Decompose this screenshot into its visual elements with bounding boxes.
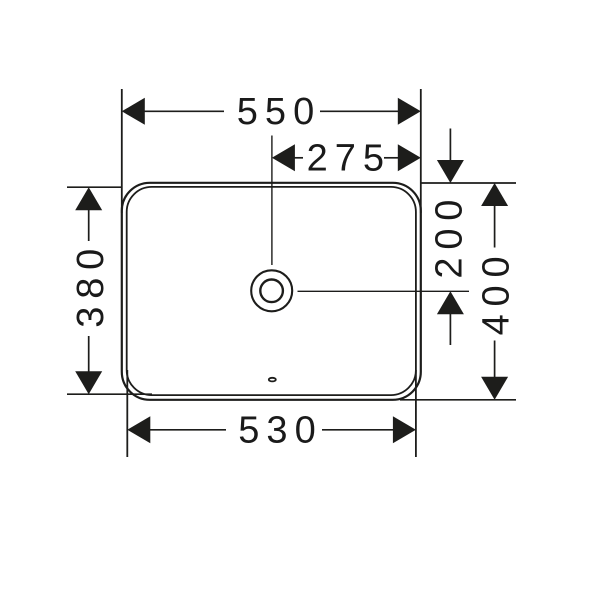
dim 530 left arrow: [127, 416, 150, 443]
dim 200 lower tail line: [449, 314, 451, 346]
dim 200 bottom arrow pointing up: [437, 291, 464, 314]
drain outer circle: [251, 270, 292, 311]
dim 200 upper tail line: [449, 129, 451, 162]
svg-text:200: 200: [428, 192, 470, 279]
dim 550 left extension line: [121, 89, 123, 213]
dim 275 left arrow at centerline: [272, 144, 295, 171]
drain inner circle: [260, 280, 283, 303]
dim 550 line left segment: [144, 110, 224, 112]
basin top edge right extension line: [421, 182, 516, 184]
dim 400 line lower segment: [494, 341, 496, 378]
basin inner rim: [127, 187, 416, 395]
basin outer rim: [122, 183, 421, 400]
dim 530 right extension line: [415, 370, 417, 457]
dim 275 line left stub: [294, 157, 303, 159]
dim 550 right arrow: [398, 98, 421, 125]
overflow hole: [269, 378, 276, 382]
dim 550 left arrow: [122, 98, 145, 125]
dim 400 line upper segment: [494, 205, 496, 247]
dim 400 bottom arrow pointing down: [481, 377, 508, 400]
dim 400 top arrow pointing up: [481, 183, 508, 206]
dim 530 left extension line: [126, 370, 128, 457]
dim 380 top arrow: [75, 187, 102, 210]
dim 380 bottom extension line: [67, 393, 152, 395]
dim 275 line right segment: [384, 157, 399, 159]
svg-text:530: 530: [238, 410, 322, 452]
dim 200 top arrow pointing down: [437, 160, 464, 183]
dim 380 line lower segment: [88, 336, 90, 372]
dim 550 right extension line: [420, 89, 422, 213]
dim 380 bottom arrow: [75, 371, 102, 394]
dim 530 line left segment: [150, 429, 227, 431]
dim 380 line upper segment: [88, 209, 90, 241]
svg-text:400: 400: [475, 249, 517, 336]
dim 275 right arrow: [398, 144, 421, 171]
svg-text:380: 380: [70, 241, 112, 328]
dim 530 right arrow: [393, 416, 416, 443]
centerline from 275 dim to drain: [271, 136, 273, 266]
svg-text:275: 275: [307, 138, 391, 180]
dim 530 line right segment: [322, 429, 394, 431]
svg-text:550: 550: [237, 91, 321, 133]
basin bottom edge right extension line: [400, 399, 516, 401]
dim 380 top extension line: [67, 186, 122, 188]
dim 550 line right segment: [320, 110, 399, 112]
drain level extension line: [298, 290, 470, 292]
